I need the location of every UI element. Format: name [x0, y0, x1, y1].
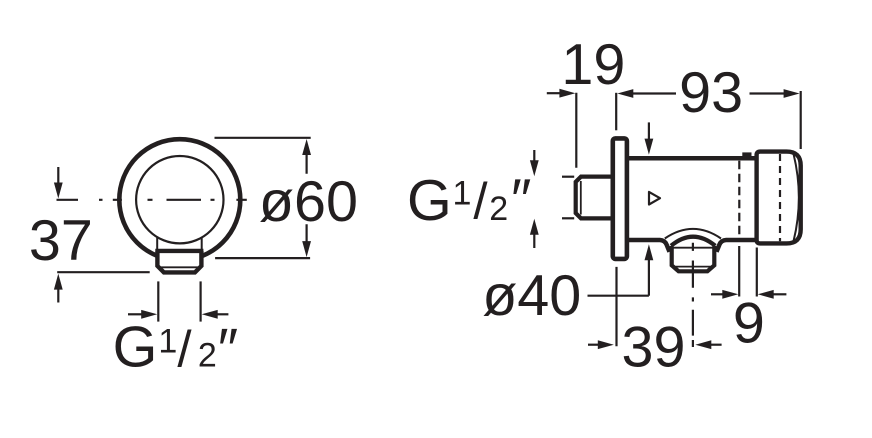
- inlet stub G1/2 (side view): [576, 177, 612, 219]
- dim 37 bottom arrow: [54, 274, 63, 303]
- svg-text:93: 93: [679, 61, 743, 125]
- push button cap: [757, 152, 801, 244]
- svg-text:ø40: ø40: [482, 264, 581, 328]
- svg-text:″: ″: [218, 318, 238, 382]
- dim 93 right extension line: [800, 91, 802, 149]
- svg-text:/: /: [177, 321, 192, 378]
- svg-text:37: 37: [29, 209, 93, 273]
- dim 9 arrows: [711, 290, 786, 299]
- svg-text:″: ″: [511, 168, 531, 232]
- svg-text:/: /: [473, 173, 488, 230]
- cap dome inner arc: [794, 154, 799, 242]
- wall flange: [613, 138, 627, 259]
- dim 19 left arrow: [547, 89, 576, 98]
- svg-text:ø60: ø60: [259, 170, 358, 234]
- outlet centerline: [692, 243, 694, 347]
- svg-text:19: 19: [561, 33, 625, 97]
- svg-text:1: 1: [453, 175, 472, 213]
- svg-text:G: G: [407, 169, 452, 233]
- horizontal centerline: [57, 199, 247, 201]
- outer circle ø60 body: [119, 139, 240, 260]
- dim o60 bottom extension line: [215, 257, 310, 259]
- wall extension line bottom: [615, 267, 617, 346]
- dim o40 leader line: [588, 295, 649, 297]
- dim G1/2 arrows (side view): [530, 150, 539, 248]
- body step before cap: [742, 152, 751, 158]
- svg-text:2: 2: [198, 337, 217, 375]
- svg-text:39: 39: [622, 316, 686, 380]
- dim 39 arrows: [588, 340, 722, 349]
- dim o60 top extension line: [215, 137, 311, 139]
- hidden dash line at body end: [738, 161, 740, 239]
- connector lip sides: [156, 237, 158, 251]
- hidden dash line at cap left: [779, 154, 781, 241]
- outlet nut: [672, 246, 715, 271]
- dim o60 vertical line + arrows: [302, 139, 311, 257]
- svg-text:2: 2: [489, 190, 508, 228]
- outlet bell inner thick arc: [671, 237, 715, 246]
- svg-text:G: G: [113, 316, 158, 380]
- dim G1/2 extension lines (left view): [157, 281, 159, 321]
- body bottom line right of outlet + wing: [717, 240, 757, 252]
- svg-text:1: 1: [158, 322, 177, 360]
- inlet stub relief line: [580, 181, 582, 215]
- body top line: [626, 156, 757, 161]
- svg-text:9: 9: [733, 292, 765, 356]
- outlet bell outer thin arc: [665, 229, 721, 239]
- dim G1/2 arrows (left view): [128, 310, 228, 319]
- threaded stub G1/2 (front view): [155, 251, 203, 273]
- dim 93 right line + arrow: [750, 89, 800, 98]
- dim 9 extension lines: [738, 246, 740, 297]
- body bottom line left of outlet + wing: [626, 240, 670, 252]
- inner circle: [136, 156, 223, 243]
- outlet nut relief line: [676, 266, 711, 268]
- dim G1/2 extension lines (side view): [562, 176, 574, 178]
- dim 93 left arrow (shared): [617, 89, 676, 98]
- wall extension line top: [615, 93, 617, 131]
- dim 37 bottom reference line: [57, 271, 150, 273]
- dim 37 top arrow: [54, 167, 63, 199]
- outlet nut top thin line: [673, 247, 713, 249]
- dim 19 left extension line: [575, 93, 577, 168]
- dim o40 arrows: [645, 122, 654, 295]
- flow direction triangle: [649, 192, 660, 205]
- stub relief line: [161, 266, 198, 268]
